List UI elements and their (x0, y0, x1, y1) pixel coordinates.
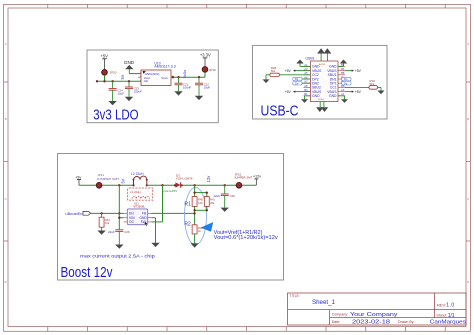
svg-text:+3.3V: +3.3V (200, 53, 211, 58)
svg-text:C: C (467, 197, 469, 201)
capacitor C25 (221, 185, 229, 207)
ground C21 (174, 91, 182, 95)
svg-text:3v3 LDO: 3v3 LDO (93, 107, 138, 123)
svg-text:20k: 20k (210, 201, 215, 205)
svg-text:B8: B8 (341, 71, 345, 75)
svg-text:pwrout5V: pwrout5V (163, 189, 177, 193)
svg-text:C25: C25 (230, 194, 236, 198)
svg-text:GND: GND (124, 60, 135, 65)
wire divider top (195, 185, 207, 196)
USB1 pin numbers (304, 63, 345, 101)
label R42 10k (105, 218, 110, 225)
U11 pin stubs (124, 213, 152, 222)
svg-text:A: A (5, 42, 7, 46)
svg-text:5k1: 5k1 (370, 82, 375, 86)
svg-text:L2 22uH: L2 22uH (131, 172, 144, 176)
svg-text:JP19: JP19 (209, 68, 216, 72)
svg-text:+12v: +12v (253, 175, 261, 179)
jumper JP21 (96, 183, 102, 189)
svg-text:2023-02-18: 2023-02-18 (352, 319, 390, 325)
label R41 20k (210, 198, 215, 205)
svg-text:10uF: 10uF (204, 85, 211, 89)
resistor R42 (99, 213, 104, 230)
svg-text:C: C (5, 197, 7, 201)
label R43 1k (198, 226, 203, 233)
svg-text:Sheet_1: Sheet_1 (312, 300, 336, 306)
junction dots divider bottom (193, 209, 208, 214)
power +5V USB right bottom (345, 90, 362, 94)
svg-text:R2: R2 (184, 222, 191, 228)
svg-text:+5v: +5v (75, 176, 81, 180)
svg-text:Your Company: Your Company (350, 312, 398, 318)
svg-text:USB-C: USB-C (261, 103, 299, 119)
svg-text:Vout: Vout (161, 76, 167, 80)
diode D3 (174, 182, 183, 188)
svg-text:22uF: 22uF (108, 230, 115, 234)
capacitor C22 (195, 77, 203, 96)
title block frame (288, 293, 467, 325)
svg-text:L3 22uH: L3 22uH (130, 190, 141, 194)
mouse cursor (145, 221, 148, 226)
inductor L2 (132, 176, 148, 186)
svg-text:uBoostEn: uBoostEn (65, 211, 82, 216)
ground USB top-center (317, 48, 331, 61)
wire U11 GND (152, 218, 156, 243)
svg-text:SS34_C8678: SS34_C8678 (176, 177, 193, 181)
wire 3v3 rail (171, 76, 205, 78)
wire GND to U10 (129, 73, 141, 75)
svg-text:1.0: 1.0 (446, 303, 454, 309)
jumper JP19 (202, 67, 208, 78)
power flag +5V (100, 54, 108, 70)
net flag Dp left (293, 77, 311, 81)
ground USB bottom-left (301, 96, 311, 103)
svg-text:A4: A4 (341, 88, 345, 92)
ground C25 (221, 208, 229, 212)
svg-text:TITLE:: TITLE: (290, 294, 300, 298)
ground C23 (125, 97, 133, 101)
ground C26 (115, 245, 123, 249)
svg-text:+5V: +5V (285, 90, 292, 94)
svg-text:A4 B9: A4 B9 (319, 63, 326, 66)
svg-text:B4: B4 (341, 67, 345, 71)
svg-text:B: B (467, 117, 469, 121)
label JP21 JUMPER SMT (97, 173, 120, 181)
wire 5V rail LDO (97, 80, 141, 82)
svg-text:Dn: Dn (295, 81, 299, 85)
ground R28 (263, 79, 270, 83)
svg-text:+5V: +5V (285, 69, 292, 73)
svg-text:C26: C26 (124, 230, 130, 234)
svg-text:12v: 12v (206, 175, 211, 183)
ground R42 (97, 231, 105, 235)
resistor R40 (192, 197, 197, 207)
annotation ellipse R1 R2 (185, 188, 207, 245)
svg-text:Vout=0.6*(1+20k/1k)=12v: Vout=0.6*(1+20k/1k)=12v (214, 235, 278, 241)
net flag Dp right (342, 81, 351, 85)
svg-text:B4 A9: B4 A9 (318, 98, 325, 101)
svg-text:+5V: +5V (100, 54, 108, 59)
resistor R41 (204, 197, 209, 207)
power +5V USB right top (345, 69, 362, 73)
wire boost input (79, 184, 134, 186)
svg-text:Dp: Dp (295, 77, 299, 81)
svg-text:OC: OC (129, 220, 135, 224)
net port uBoostEn (65, 211, 90, 216)
regulator U11 MT3608L body (127, 209, 147, 225)
svg-text:Dn: Dn (344, 77, 348, 81)
svg-text:USB1: USB1 (306, 56, 315, 60)
svg-text:B: B (5, 117, 7, 121)
capacitor C26 (115, 230, 123, 245)
label JP22 JUMPER SMT (234, 173, 253, 180)
svg-text:1/1: 1/1 (448, 313, 455, 319)
label R40 12K (198, 198, 203, 205)
resistor R43 (192, 225, 197, 234)
svg-text:10k: 10k (105, 221, 110, 225)
wire R43 to ground (194, 234, 196, 243)
ground U11 (151, 243, 159, 247)
label C22 10uF (204, 82, 211, 89)
svg-text:R1: R1 (184, 202, 191, 208)
svg-text:A: A (467, 42, 469, 46)
USB block frame (253, 45, 388, 119)
power flag +3.3V (200, 53, 211, 67)
ground USB top-left (297, 60, 311, 67)
svg-text:GND: GND (329, 94, 337, 98)
capacitor C21 (175, 77, 183, 91)
ground C22 (195, 96, 203, 100)
GND symbol LDO (124, 60, 135, 74)
U10 pin names (144, 72, 168, 83)
label D3 SS34_C8678 (176, 173, 193, 180)
svg-text:10uF: 10uF (117, 91, 124, 95)
resistor R29 (345, 86, 381, 91)
svg-text:3v3o: 3v3o (182, 69, 187, 78)
wire SW to node (152, 185, 163, 222)
svg-text:Date:: Date: (332, 320, 341, 324)
svg-text:5k1: 5k1 (271, 69, 276, 73)
label R29 5k1 (370, 79, 376, 86)
ground USB bottom-right (338, 96, 348, 103)
svg-text:100nF: 100nF (134, 90, 142, 94)
power flag +5v boost (75, 176, 81, 186)
Boost block frame (58, 154, 284, 281)
svg-text:GND: GND (312, 94, 320, 98)
svg-text:Vin: Vin (144, 79, 149, 83)
svg-text:A8: A8 (304, 84, 308, 88)
capacitor C23 (125, 81, 133, 97)
svg-text:max current output 2.5A - chip: max current output 2.5A - chip (80, 254, 155, 260)
net flag Dn right (342, 77, 351, 81)
svg-text:MT3608L: MT3608L (133, 205, 145, 209)
svg-text:Boost 12v: Boost 12v (61, 265, 114, 281)
alternate inductor L3 dashed box (128, 188, 153, 200)
wire D3 to output (182, 184, 256, 186)
label C21 100nF (183, 82, 191, 89)
svg-text:D: D (5, 280, 7, 284)
ground R43 (190, 243, 198, 247)
svg-text:Company:: Company: (332, 312, 348, 316)
ground R29 (378, 91, 385, 95)
svg-text:12K: 12K (198, 201, 203, 205)
U10 pin marker (143, 71, 146, 74)
svg-text:D: D (467, 280, 469, 284)
svg-text:Sheet:: Sheet: (436, 314, 447, 318)
svg-text:JUMPER SMT: JUMPER SMT (97, 177, 120, 181)
label R28 5k1 (271, 66, 277, 73)
junction dots LDO right (172, 76, 200, 78)
op-amp U10 AMS1117 body (141, 70, 171, 86)
connector USB1 body (311, 61, 339, 102)
jumper JP22 (236, 183, 242, 189)
label C25 22uF (213, 194, 235, 198)
junction dots output wire (193, 184, 225, 186)
power flag +12v (253, 175, 261, 186)
wire divider bottom (195, 206, 207, 224)
wire VIN drop (119, 185, 123, 230)
U10 pin numbers (140, 72, 174, 82)
junction VIN drop (118, 184, 120, 186)
callout arrow (201, 222, 214, 232)
svg-text:JP20: JP20 (110, 71, 117, 75)
ground USB bottom-center (316, 102, 328, 113)
LDO block frame (87, 50, 218, 123)
wire L2 to D3 (147, 184, 176, 186)
power +5V USB left bottom (285, 90, 311, 94)
svg-text:22uF: 22uF (213, 194, 220, 198)
ground USB top-right (338, 60, 347, 67)
capacitor C24 (109, 81, 117, 101)
resistor R28 (266, 73, 311, 79)
junction R42 (100, 212, 102, 214)
svg-text:JUMPER SMT: JUMPER SMT (234, 175, 253, 179)
junction dots LDO left (96, 80, 130, 82)
label C24 10uF (117, 88, 124, 95)
svg-text:Drawn By:: Drawn By: (398, 320, 415, 324)
USB1 pin names (312, 65, 337, 98)
svg-text:+5V: +5V (355, 69, 362, 73)
label C23 100nF (134, 87, 142, 94)
jumper JP20 (102, 70, 108, 82)
ground C24 (108, 101, 116, 105)
svg-text:Dp: Dp (344, 81, 348, 85)
net flag Dn left (293, 81, 311, 85)
wire FB to divider (152, 212, 195, 214)
svg-text:REV:: REV: (437, 302, 446, 307)
junction dots divider top (193, 191, 208, 193)
svg-text:CanMarques: CanMarques (430, 319, 466, 325)
U11 pin names (129, 212, 147, 224)
svg-text:+5V: +5V (355, 90, 362, 94)
svg-text:AMS1117-3.3: AMS1117-3.3 (154, 65, 175, 69)
junction SW node (161, 184, 163, 186)
power +5V USB left top (285, 69, 311, 73)
label C26 22uF (108, 230, 130, 234)
svg-text:100nF: 100nF (183, 85, 191, 89)
USB1 pin stubs (304, 66, 346, 95)
wire uBoostEn to EN (91, 212, 124, 214)
U10 pin stubs (138, 76, 175, 78)
junction dots VIN (118, 212, 120, 219)
